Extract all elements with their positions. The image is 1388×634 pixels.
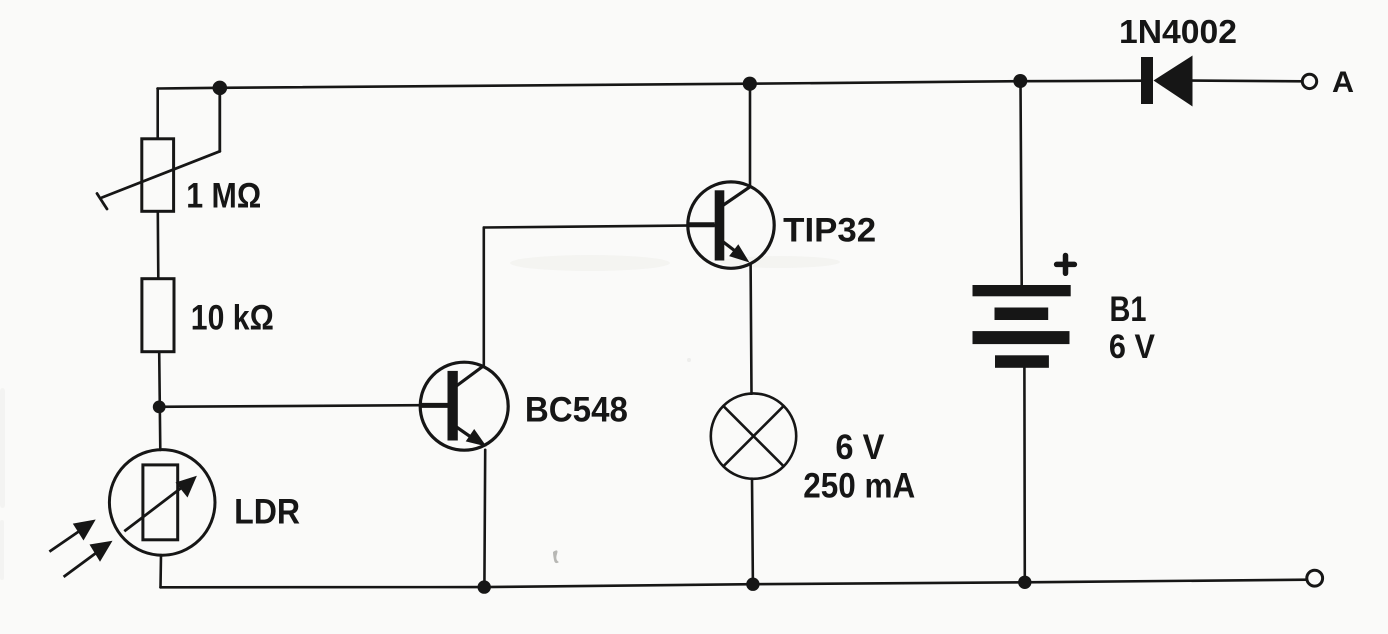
svg-text:B1: B1	[1110, 289, 1147, 329]
svg-text:1N4002: 1N4002	[1119, 14, 1237, 51]
svg-text:TIP32: TIP32	[783, 212, 876, 250]
svg-text:10 kΩ: 10 kΩ	[191, 299, 274, 338]
svg-text:1 MΩ: 1 MΩ	[186, 176, 261, 215]
svg-text:6 V: 6 V	[835, 427, 884, 467]
svg-text:A: A	[1332, 66, 1354, 99]
svg-text:6 V: 6 V	[1109, 328, 1155, 366]
svg-text:LDR: LDR	[234, 493, 300, 532]
svg-text:BC548: BC548	[525, 391, 628, 430]
svg-text:250 mA: 250 mA	[803, 466, 915, 506]
